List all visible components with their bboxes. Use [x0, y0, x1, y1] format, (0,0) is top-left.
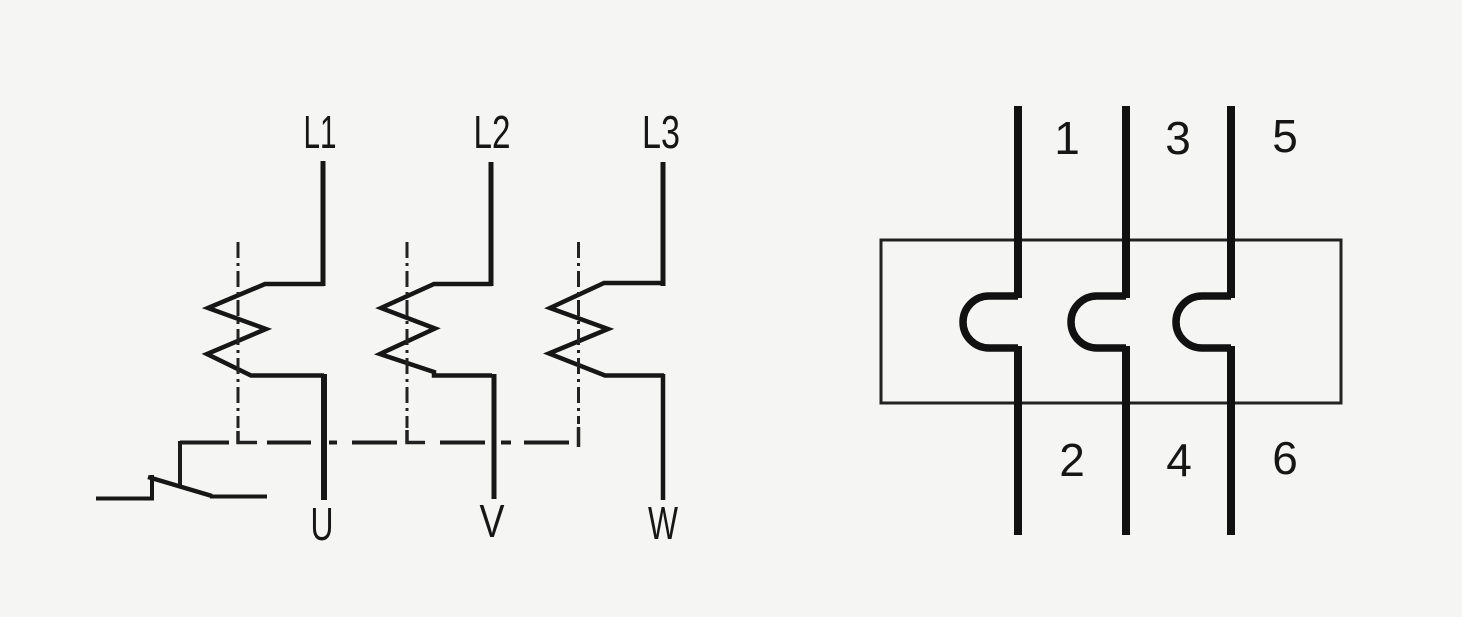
svg-text:L2: L2 — [474, 106, 511, 158]
trip linkage dash-dot centerline phase L1 — [237, 242, 240, 428]
heater element phase L2 — [380, 284, 492, 376]
svg-text:U: U — [311, 498, 334, 550]
pole 5-6 line (top) — [1227, 106, 1235, 298]
overload relay body (terminal box) — [881, 240, 1341, 403]
wire L3 input (top) — [661, 162, 666, 286]
trip linkage L3 bottom end — [577, 427, 581, 447]
trip linkage L2 bottom corner — [407, 430, 425, 443]
pole 1-2 heater loop — [963, 296, 1018, 348]
pole 5-6 line (bottom) — [1227, 346, 1235, 535]
wire V output (bottom of L2 heater) — [492, 374, 497, 499]
trip linkage dash-dot centerline phase L2 — [406, 242, 409, 428]
trip linkage dash-dot centerline phase L3 — [577, 242, 580, 424]
svg-text:W: W — [648, 497, 678, 549]
NC contact: right lead — [210, 495, 267, 499]
wire W output (bottom of L3 heater) — [661, 374, 666, 500]
mechanical trip bar dash 7 — [524, 441, 569, 445]
pole 3-4 line (bottom) — [1122, 346, 1130, 535]
mechanical trip bar dash 5 — [440, 441, 485, 445]
heater element phase L1 — [207, 284, 324, 376]
mechanical trip bar dash 2 — [267, 441, 311, 445]
NC contact: left lead — [96, 475, 152, 499]
mechanical trip bar dash 4 — [352, 441, 397, 445]
svg-text:1: 1 — [1054, 112, 1080, 164]
svg-text:V: V — [480, 495, 505, 547]
trip bar drop to contact — [178, 441, 182, 487]
svg-text:L3: L3 — [642, 106, 680, 158]
pole 3-4 heater loop — [1071, 296, 1126, 348]
trip linkage L1 bottom corner — [238, 431, 257, 443]
mechanical trip bar dash 1 — [180, 441, 229, 445]
pole 5-6 heater loop — [1176, 296, 1231, 348]
svg-text:3: 3 — [1165, 112, 1191, 164]
svg-text:4: 4 — [1166, 434, 1192, 486]
wire L2 input (top) — [489, 162, 494, 286]
heater element phase L3 — [549, 283, 664, 376]
wire L1 input (top) — [321, 161, 326, 286]
pole 1-2 line (top) — [1014, 106, 1022, 298]
mechanical trip bar dash 6 (stub after V line) — [501, 441, 511, 445]
pole 3-4 line (top) — [1122, 106, 1130, 298]
svg-text:2: 2 — [1059, 434, 1085, 486]
mechanical trip bar dash 3 (stub after U line) — [329, 441, 337, 445]
svg-text:6: 6 — [1272, 432, 1298, 484]
wire U output (bottom of L1 heater) — [321, 374, 327, 500]
svg-text:L1: L1 — [304, 106, 337, 158]
pole 1-2 line (bottom) — [1014, 346, 1022, 535]
svg-text:5: 5 — [1272, 110, 1298, 162]
NC contact: blade — [148, 477, 212, 496]
